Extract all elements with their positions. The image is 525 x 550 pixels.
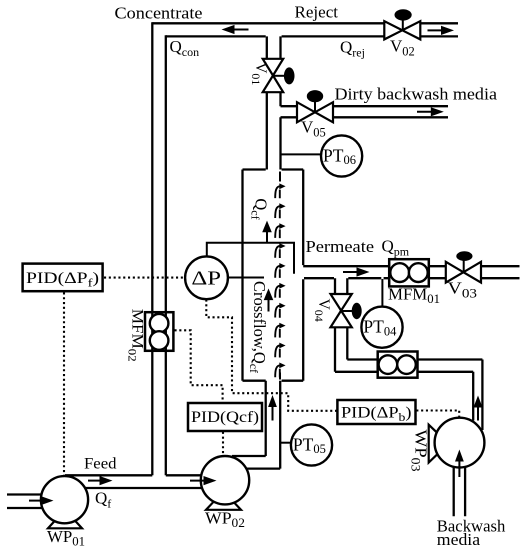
svg-text:ΔP: ΔP xyxy=(191,267,221,289)
instrument PT06 xyxy=(321,135,362,176)
instrument dP sensor tap upper xyxy=(207,243,294,274)
wire WP01 to WP02 feed line xyxy=(65,475,203,488)
wire reject/concentrate header top line xyxy=(152,22,458,24)
svg-text:PID(Qcf): PID(Qcf) xyxy=(191,409,259,426)
arrow backwash riser up xyxy=(477,407,479,421)
pump WP02 xyxy=(206,501,241,510)
control line PID(dPf) to dP xyxy=(104,277,185,279)
controller PID(dPf) box xyxy=(23,264,103,292)
svg-text:Permeate: Permeate xyxy=(306,237,375,256)
arrow feed into WP02 xyxy=(190,480,208,482)
svg-text:Crossflow,Qcf: Crossflow,Qcf xyxy=(247,281,269,373)
pump WP01 xyxy=(48,519,82,528)
valve V01 xyxy=(274,75,286,77)
svg-text:Reject: Reject xyxy=(295,2,339,21)
membrane permeation arrows xyxy=(275,186,280,377)
arrow dirty backwash out xyxy=(417,111,436,113)
controller PID(dPb) box xyxy=(337,400,415,424)
valve V04 xyxy=(342,310,353,312)
wire permeate line module to MFM01 xyxy=(303,266,389,278)
wire concentrate left downcomer to WP02 xyxy=(152,22,166,475)
valve V05 xyxy=(314,101,316,112)
arrow reject out xyxy=(428,29,447,31)
wire backwash MFM to riser xyxy=(418,360,483,372)
flow meter backwash xyxy=(379,355,398,374)
arrow crossflow up 1 xyxy=(266,232,268,243)
wire branch to V05 xyxy=(281,106,298,117)
wire V01 to module top xyxy=(267,92,281,169)
arrow concentrate flow left xyxy=(228,29,249,31)
svg-text:media: media xyxy=(437,530,481,549)
instrument PT05 xyxy=(291,424,332,465)
flow meter MFM02 xyxy=(150,314,169,333)
arrow module feed up xyxy=(272,407,274,421)
wire PT05 tap xyxy=(281,442,293,444)
control line PID(dPf) to WP01 xyxy=(63,292,65,475)
arrow feed after WP01 xyxy=(88,480,104,482)
wire reject/concentrate header bottom line xyxy=(166,35,458,37)
wire MFM01 to V03 xyxy=(429,266,446,278)
svg-text:Dirty backwash media: Dirty backwash media xyxy=(335,85,498,104)
arrow permeate flow xyxy=(343,271,361,273)
control line PID(Qcf) to WP02 xyxy=(222,432,224,456)
valve V03 xyxy=(463,260,465,272)
arrow crossflow up 2 xyxy=(268,300,270,312)
wire dirty backwash media outlet xyxy=(333,106,448,117)
svg-text:Concentrate: Concentrate xyxy=(115,4,203,23)
wire riser from header to V01 xyxy=(267,36,281,58)
membrane module housing xyxy=(243,170,304,381)
instrument dP sensor tap lower xyxy=(228,277,264,279)
instrument dP xyxy=(185,256,228,299)
control line MFM02 to PID(Qcf) xyxy=(175,330,223,402)
pump WP03 xyxy=(429,425,438,463)
wire V04 down to backwash line xyxy=(335,327,347,372)
svg-text:Feed: Feed xyxy=(84,456,117,473)
flow meter MFM01 xyxy=(390,263,409,282)
wire backwash riser down to WP03 xyxy=(473,360,482,431)
membrane dashed line xyxy=(279,172,281,182)
control line PID(dPb) to WP03 xyxy=(416,411,459,418)
instrument PT04 xyxy=(361,307,402,348)
wire PT04 tap xyxy=(381,279,383,307)
wire backwash line V04 to MFM xyxy=(335,360,378,372)
valve V02 xyxy=(402,19,404,30)
wire permeate out xyxy=(481,266,520,278)
wire WP02 outlet xyxy=(232,456,280,469)
wire branch to V04 xyxy=(335,278,347,294)
wire module bottom pipe down to WP02 outlet xyxy=(266,381,281,469)
wire feed inlet to WP01 xyxy=(7,495,43,509)
arrow into WP03 xyxy=(458,461,460,477)
wire PT06 tap xyxy=(281,153,322,155)
arrow feed into WP01 xyxy=(29,500,45,502)
wire backwash media inlet xyxy=(454,467,465,517)
control line dP to PID(dPb) xyxy=(206,300,336,411)
controller PID(Qcf) box xyxy=(188,403,262,431)
